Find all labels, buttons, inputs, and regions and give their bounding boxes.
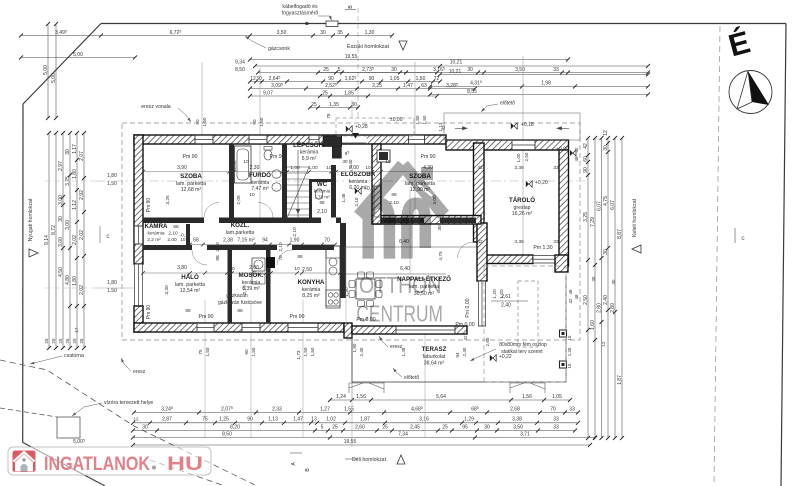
svg-text:1,17: 1,17 xyxy=(72,144,78,154)
svg-text:kerámia: kerámia xyxy=(242,280,261,286)
flag on wall corner xyxy=(570,150,573,156)
svg-text:48: 48 xyxy=(574,156,579,161)
svg-text:kerámia: kerámia xyxy=(314,189,331,194)
svg-text:Déli homlokzat: Déli homlokzat xyxy=(352,457,387,463)
svg-text:Pm 90: Pm 90 xyxy=(421,154,436,160)
svg-text:30: 30 xyxy=(256,76,262,82)
svg-text:6,07: 6,07 xyxy=(596,201,602,211)
svg-text:1,24: 1,24 xyxy=(336,394,346,400)
logo dot xyxy=(152,466,156,470)
svg-text:Pm 90: Pm 90 xyxy=(183,154,198,160)
svg-text:2,45: 2,45 xyxy=(410,424,420,430)
svg-text:1,30: 1,30 xyxy=(344,287,350,297)
svg-text:42: 42 xyxy=(574,147,579,152)
svg-text:KONYHA: KONYHA xyxy=(298,279,325,286)
svg-text:88: 88 xyxy=(391,192,397,198)
svg-text:3,50: 3,50 xyxy=(515,67,525,73)
19,55 top dim xyxy=(248,58,570,62)
centerline dashed horizontal lower xyxy=(95,287,134,289)
svg-text:2,80: 2,80 xyxy=(596,303,602,313)
svg-text:3,38: 3,38 xyxy=(512,417,522,423)
svg-text:10: 10 xyxy=(385,159,391,165)
marker C left xyxy=(99,226,101,243)
svg-text:3,00: 3,00 xyxy=(65,220,71,230)
svg-text:2,40: 2,40 xyxy=(501,303,511,309)
left dim col 3 xyxy=(58,131,65,350)
svg-text:25: 25 xyxy=(44,338,49,343)
svg-text:10: 10 xyxy=(294,266,300,272)
left dim col 9,14 xyxy=(44,131,51,350)
svg-text:3,50: 3,50 xyxy=(277,30,287,36)
meter symbol on boundary xyxy=(326,21,338,27)
svg-text:30: 30 xyxy=(611,279,616,284)
svg-text:2,87: 2,87 xyxy=(162,417,172,423)
nappali right wall xyxy=(477,223,487,281)
svg-text:2,97: 2,97 xyxy=(58,161,64,171)
svg-text:8,55: 8,55 xyxy=(467,89,477,95)
svg-text:8,25 m²: 8,25 m² xyxy=(302,293,320,299)
svg-text:78: 78 xyxy=(278,255,284,261)
svg-text:68: 68 xyxy=(319,200,325,205)
vizora box xyxy=(57,417,80,438)
svg-text:2,2 m²: 2,2 m² xyxy=(147,237,161,243)
svg-text:10,21: 10,21 xyxy=(449,69,462,75)
svg-text:1,80: 1,80 xyxy=(72,276,78,286)
svg-text:MOSÓK.: MOSÓK. xyxy=(238,271,263,279)
svg-text:Pm 1,30: Pm 1,30 xyxy=(533,245,552,251)
svg-text:2,50: 2,50 xyxy=(583,295,589,305)
svg-text:HU: HU xyxy=(167,454,203,475)
svg-text:17: 17 xyxy=(74,327,79,332)
svg-text:1,60: 1,60 xyxy=(590,320,596,330)
site boundary right line xyxy=(781,24,786,486)
svg-text:12,54 m²: 12,54 m² xyxy=(180,288,201,294)
svg-text:68: 68 xyxy=(173,224,179,230)
svg-text:2,10: 2,10 xyxy=(168,231,178,237)
konyha-nappali wall xyxy=(340,223,346,298)
svg-text:78: 78 xyxy=(326,113,331,119)
svg-text:12: 12 xyxy=(133,417,139,422)
right dim col 6 xyxy=(617,136,624,440)
terasz column 1 xyxy=(560,330,567,337)
svg-text:90: 90 xyxy=(369,76,375,82)
gutter mark 1 xyxy=(349,383,384,393)
svg-text:30: 30 xyxy=(603,249,609,255)
svg-text:3,00: 3,00 xyxy=(58,195,64,205)
svg-text:4,75: 4,75 xyxy=(438,251,444,261)
svg-text:faburkolat: faburkolat xyxy=(423,354,446,360)
slope arrow left xyxy=(557,127,569,130)
svg-text:2,02: 2,02 xyxy=(79,285,85,295)
svg-text:3,16: 3,16 xyxy=(419,417,429,423)
section line dashed vertical right xyxy=(714,26,720,486)
svg-text:7,47 m²: 7,47 m² xyxy=(251,186,269,192)
svg-text:Pm 90: Pm 90 xyxy=(270,154,285,160)
svg-text:15: 15 xyxy=(567,363,572,368)
left dim col 4 xyxy=(65,131,72,350)
svg-text:13: 13 xyxy=(311,417,317,423)
svg-text:1,00: 1,00 xyxy=(308,165,318,171)
svg-text:vízóra tervezett helye: vízóra tervezett helye xyxy=(104,400,153,406)
svg-text:1,47: 1,47 xyxy=(293,417,303,423)
svg-text:1,00: 1,00 xyxy=(290,165,300,171)
svg-text:25: 25 xyxy=(332,424,338,430)
konyha fridge xyxy=(326,246,340,258)
svg-text:SZOBA: SZOBA xyxy=(180,173,202,180)
left dim col 6 xyxy=(79,131,86,350)
site boundary top-left diagonal xyxy=(23,24,101,105)
svg-text:8,50: 8,50 xyxy=(235,67,245,73)
nappali top wall xyxy=(374,216,481,225)
svg-text:60: 60 xyxy=(583,156,589,162)
entry closet dark xyxy=(377,150,390,162)
svg-text:2,40: 2,40 xyxy=(359,347,364,356)
entrance pier solid xyxy=(323,136,342,147)
svg-text:33: 33 xyxy=(553,417,559,423)
terasz dim row xyxy=(328,398,572,402)
entrance door opening xyxy=(342,136,367,144)
svg-text:3,30: 3,30 xyxy=(164,285,170,295)
svg-text:1,12: 1,12 xyxy=(72,200,78,210)
svg-text:35: 35 xyxy=(337,30,343,36)
svg-text:38,64 m²: 38,64 m² xyxy=(424,361,445,367)
svg-text:1,80: 1,80 xyxy=(107,280,117,286)
centerline dashed horizontal upper xyxy=(95,180,585,182)
svg-text:9,34: 9,34 xyxy=(235,59,245,65)
svg-text:94: 94 xyxy=(455,352,460,358)
svg-text:7,29: 7,29 xyxy=(590,217,596,227)
svg-text:Pm 90: Pm 90 xyxy=(146,305,152,320)
svg-text:3,50: 3,50 xyxy=(513,424,523,430)
svg-text:3,25: 3,25 xyxy=(583,212,589,222)
svg-text:5: 5 xyxy=(338,67,341,73)
svg-text:30: 30 xyxy=(591,276,596,281)
dim row top 1 xyxy=(19,30,394,38)
svg-text:4,75: 4,75 xyxy=(603,196,609,206)
svg-text:lam. parketta: lam. parketta xyxy=(176,181,206,187)
right c marker xyxy=(734,228,736,243)
window centerlines top xyxy=(201,62,203,223)
svg-text:7,34: 7,34 xyxy=(398,431,408,437)
svg-text:2,10: 2,10 xyxy=(242,285,248,295)
canopy dashed rect entrance xyxy=(336,118,414,136)
svg-text:90: 90 xyxy=(328,76,334,82)
svg-text:1,35: 1,35 xyxy=(329,102,339,108)
dim row 8,50 / 25 5 2,73 30 3,16 30 3,50 33 xyxy=(256,71,439,75)
site boundary bottom-left diagonal xyxy=(23,442,105,486)
kamra right wall xyxy=(186,224,190,245)
mosok-konyha wall xyxy=(266,250,271,323)
dim row 2,64 / 10,21 right xyxy=(248,76,442,84)
svg-text:9,14: 9,14 xyxy=(44,235,50,245)
compass circle xyxy=(729,71,772,114)
svg-text:2,10: 2,10 xyxy=(317,209,327,215)
mosok sink xyxy=(252,274,265,284)
svg-text:3,38: 3,38 xyxy=(514,165,524,171)
svg-text:95: 95 xyxy=(462,424,468,430)
svg-text:2,68: 2,68 xyxy=(510,406,520,412)
canopy column dashed xyxy=(518,281,538,347)
gutter mark 2 xyxy=(510,383,545,393)
svg-text:5,00: 5,00 xyxy=(51,73,57,83)
dim row bottom 1 xyxy=(132,411,580,415)
svg-text:CENTRUM: CENTRUM xyxy=(356,300,443,326)
svg-text:kábelfogadó és: kábelfogadó és xyxy=(282,4,318,10)
svg-text:1,50: 1,50 xyxy=(303,347,308,356)
svg-text:7,15 m²: 7,15 m² xyxy=(237,238,255,244)
svg-text:5: 5 xyxy=(321,424,324,430)
svg-text:Északi homlokzat: Északi homlokzat xyxy=(347,43,389,50)
svg-text:10: 10 xyxy=(229,266,235,272)
svg-text:90: 90 xyxy=(195,119,200,125)
dim row 19,55 bottom xyxy=(131,443,592,447)
dim row 3,09 2,52 2,25 1,47 63 3,28 xyxy=(248,87,477,91)
svg-text:gázkazán füstcsöve: gázkazán füstcsöve xyxy=(218,300,262,306)
svg-text:25: 25 xyxy=(51,338,56,343)
svg-text:19,55: 19,55 xyxy=(345,54,358,60)
svg-text:Nyugati homlokzat: Nyugati homlokzat xyxy=(28,198,34,241)
svg-text:2,00: 2,00 xyxy=(167,237,177,243)
svg-text:12: 12 xyxy=(250,76,256,82)
svg-text:63: 63 xyxy=(421,83,427,89)
interior dim line lower rooms xyxy=(141,271,342,275)
svg-text:kerámia: kerámia xyxy=(147,231,164,237)
svg-text:1,35: 1,35 xyxy=(567,347,572,356)
svg-text:Pm 90: Pm 90 xyxy=(199,314,214,320)
svg-text:16,26 m²: 16,26 m² xyxy=(512,211,533,217)
svg-text:88: 88 xyxy=(215,255,221,261)
svg-text:2,50: 2,50 xyxy=(524,152,529,161)
watermark roof right slope xyxy=(403,165,444,215)
svg-text:5,64: 5,64 xyxy=(436,394,446,400)
svg-text:-0,10: -0,10 xyxy=(180,233,191,239)
svg-text:10: 10 xyxy=(326,165,332,171)
svg-text:1,80: 1,80 xyxy=(72,169,78,179)
svg-text:25: 25 xyxy=(442,424,448,430)
svg-text:30: 30 xyxy=(142,424,148,430)
stair arrow xyxy=(296,209,300,214)
svg-text:1,98: 1,98 xyxy=(541,80,551,86)
door arcs upper wall xyxy=(204,203,219,218)
svg-text:8,50: 8,50 xyxy=(222,431,232,437)
svg-text:30: 30 xyxy=(391,67,397,73)
sewer dashed diagonal 2 xyxy=(150,460,225,486)
svg-text:10: 10 xyxy=(243,159,249,165)
svg-text:1,02: 1,02 xyxy=(326,417,336,423)
svg-text:1,50: 1,50 xyxy=(107,181,117,187)
svg-text:+0,20: +0,20 xyxy=(535,180,548,186)
svg-text:1,27: 1,27 xyxy=(320,406,330,412)
svg-text:1,80: 1,80 xyxy=(107,173,117,179)
svg-text:1,56: 1,56 xyxy=(522,394,532,400)
svg-text:2,05: 2,05 xyxy=(232,160,237,169)
svg-text:1,29: 1,29 xyxy=(464,417,474,423)
svg-text:88: 88 xyxy=(185,308,191,314)
svg-text:19,55: 19,55 xyxy=(344,439,357,445)
svg-text:2,80: 2,80 xyxy=(610,303,616,313)
svg-text:INGATLANOK: INGATLANOK xyxy=(44,454,150,475)
svg-text:12: 12 xyxy=(603,130,609,136)
right dim col 4 xyxy=(603,130,610,440)
svg-text:Pm 0,00: Pm 0,00 xyxy=(455,322,474,328)
right dim col 5 xyxy=(610,136,617,440)
centerline horizontals from windows xyxy=(45,180,95,182)
svg-text:10: 10 xyxy=(365,165,371,171)
svg-text:eresz vonala: eresz vonala xyxy=(141,104,171,110)
sewer dashed diagonal 1 xyxy=(0,360,257,486)
svg-text:csatorna: csatorna xyxy=(64,353,84,359)
bottom exterior wall left xyxy=(134,323,344,332)
svg-text:2,02: 2,02 xyxy=(72,235,78,245)
svg-text:2,40: 2,40 xyxy=(603,295,609,305)
svg-text:2,38: 2,38 xyxy=(223,238,233,244)
svg-text:WC: WC xyxy=(317,181,328,188)
left vertical dims top xyxy=(43,22,50,120)
corner piece tarolo-terasz xyxy=(555,255,568,272)
svg-text:2,00: 2,00 xyxy=(249,265,259,271)
nappali bottom wall xyxy=(352,326,467,334)
dim row 9,07 / 1,85 / 8,55 xyxy=(248,94,439,98)
svg-text:1,50: 1,50 xyxy=(416,76,426,82)
svg-text:ELŐSZOBA: ELŐSZOBA xyxy=(341,171,376,178)
svg-text:33: 33 xyxy=(553,239,559,245)
svg-text:1,87: 1,87 xyxy=(360,417,370,423)
svg-text:25: 25 xyxy=(72,338,77,343)
left dim col 5 xyxy=(72,131,79,350)
svg-text:1,00: 1,00 xyxy=(516,153,521,162)
svg-text:1,50: 1,50 xyxy=(205,347,210,356)
logo bar xyxy=(8,447,211,475)
halo-mosok wall xyxy=(228,250,233,323)
svg-text:25: 25 xyxy=(323,67,329,73)
compass needle xyxy=(748,71,769,105)
svg-text:1,73: 1,73 xyxy=(296,350,301,359)
svg-text:1,50: 1,50 xyxy=(310,347,315,356)
slope arrow right xyxy=(455,127,467,130)
bathtub xyxy=(235,146,252,183)
svg-text:Pm 90: Pm 90 xyxy=(290,314,305,320)
svg-text:90: 90 xyxy=(247,417,253,423)
svg-text:kerámia: kerámia xyxy=(302,287,321,293)
svg-text:30: 30 xyxy=(467,67,473,73)
svg-text:1,56: 1,56 xyxy=(356,394,366,400)
svg-text:5,00: 5,00 xyxy=(73,52,83,58)
dim row 25 1,35 30 xyxy=(308,102,360,110)
svg-text:9,07: 9,07 xyxy=(263,90,273,96)
svg-text:1,55: 1,55 xyxy=(344,406,354,412)
watermark group xyxy=(356,165,444,326)
svg-text:lam. parketta: lam. parketta xyxy=(175,282,205,288)
right dim col 1 xyxy=(583,136,590,440)
eresz dashed outline xyxy=(122,123,580,340)
svg-text:1,87: 1,87 xyxy=(617,375,623,385)
site boundary top line xyxy=(101,23,786,25)
elotete canopy rect top xyxy=(444,113,580,140)
svg-text:30: 30 xyxy=(65,149,71,155)
svg-text:15: 15 xyxy=(567,335,572,340)
right dim col 2 xyxy=(590,136,597,440)
dim row 9,34 / 10,21 xyxy=(253,64,650,68)
mosok washer xyxy=(252,258,265,271)
svg-text:90: 90 xyxy=(252,119,257,125)
svg-text:FÜRDŐ: FÜRDŐ xyxy=(249,172,271,179)
entrance arrow triangle xyxy=(352,133,359,139)
svg-text:3,25: 3,25 xyxy=(165,195,171,205)
svg-text:8,20: 8,20 xyxy=(230,424,240,430)
wc toilet small room xyxy=(315,189,323,199)
svg-text:25: 25 xyxy=(79,338,84,343)
svg-text:1,47: 1,47 xyxy=(403,83,413,89)
svg-text:2,40: 2,40 xyxy=(348,159,353,168)
svg-text:48: 48 xyxy=(568,289,573,294)
svg-text:10: 10 xyxy=(249,192,255,198)
interior dim line upper rooms xyxy=(141,170,478,174)
svg-text:1,05: 1,05 xyxy=(552,394,562,400)
svg-text:8,87: 8,87 xyxy=(617,229,623,239)
interior wall horizontal lower corridor xyxy=(143,245,334,250)
svg-text:2,02: 2,02 xyxy=(79,230,85,240)
svg-text:1,90: 1,90 xyxy=(352,343,357,352)
svg-text:greslap: greslap xyxy=(513,205,530,211)
svg-text:94: 94 xyxy=(262,238,268,244)
svg-text:LÉPCSŐH.: LÉPCSŐH. xyxy=(293,141,325,149)
dining table xyxy=(356,279,375,299)
svg-text:75: 75 xyxy=(198,349,203,355)
interior wall furdo-lepcso xyxy=(282,144,287,218)
svg-text:2,40: 2,40 xyxy=(462,347,467,356)
svg-text:25: 25 xyxy=(382,424,388,430)
svg-text:30: 30 xyxy=(437,225,443,231)
svg-text:33: 33 xyxy=(553,165,559,171)
svg-text:1,13: 1,13 xyxy=(268,417,278,423)
svg-text:90: 90 xyxy=(583,167,589,173)
dim row bottom 4 xyxy=(131,436,597,440)
svg-text:2,33: 2,33 xyxy=(272,406,282,412)
svg-text:8,72: 8,72 xyxy=(51,225,57,235)
svg-text:1,46: 1,46 xyxy=(341,193,346,202)
svg-text:HÁLÓ: HÁLÓ xyxy=(181,273,199,281)
svg-text:42: 42 xyxy=(477,239,483,245)
csatorna dashed line xyxy=(0,408,57,417)
svg-text:+0,28: +0,28 xyxy=(355,124,368,130)
svg-text:1,05: 1,05 xyxy=(390,76,400,82)
svg-text:TERASZ: TERASZ xyxy=(422,346,447,353)
svg-text:gázcsonk: gázcsonk xyxy=(268,46,290,52)
dim row bottom 3 xyxy=(131,429,577,433)
svg-text:12: 12 xyxy=(601,341,606,346)
eloszoba-szoba2 wall xyxy=(372,144,381,224)
right dim col 3 xyxy=(596,136,603,440)
svg-text:72: 72 xyxy=(434,76,440,82)
interior wall szoba1-furdo xyxy=(229,144,234,218)
svg-text:fogyasztásmérő: fogyasztásmérő xyxy=(282,11,319,17)
svg-text:2,92: 2,92 xyxy=(79,190,85,200)
svg-text:Pm 0,00: Pm 0,00 xyxy=(465,298,471,317)
svg-text:+0,00: +0,00 xyxy=(556,147,569,153)
svg-text:1,30: 1,30 xyxy=(365,30,375,36)
svg-text:12,68 m²: 12,68 m² xyxy=(181,187,202,193)
svg-text:KÖZL.: KÖZL. xyxy=(231,222,250,229)
svg-text:1,70 m²: 1,70 m² xyxy=(314,195,330,200)
svg-text:42: 42 xyxy=(477,165,483,171)
watermark C glyph xyxy=(407,203,425,258)
svg-text:5,9 m²: 5,9 m² xyxy=(302,156,317,162)
svg-text:42: 42 xyxy=(583,143,589,149)
svg-text:4,80: 4,80 xyxy=(65,275,71,285)
szoba2-tarolo wall xyxy=(474,143,485,242)
svg-text:30: 30 xyxy=(484,424,490,430)
top wall right section xyxy=(446,140,569,150)
